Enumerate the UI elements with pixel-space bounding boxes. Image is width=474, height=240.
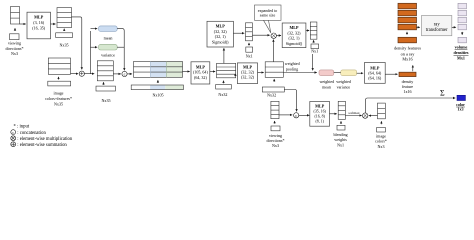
svg-text:mean: mean: [104, 36, 113, 41]
svg-text:densities: densities: [453, 50, 468, 55]
svg-text:Nx1: Nx1: [311, 49, 318, 54]
svg-text:image: image: [54, 91, 64, 96]
svg-text:Σ: Σ: [440, 88, 445, 97]
svg-text:variance: variance: [101, 53, 115, 58]
svg-text:colors+features*: colors+features*: [45, 96, 72, 101]
svg-text:: element-wise multiplication: : element-wise multiplication: [17, 137, 73, 142]
svg-text:density features: density features: [394, 46, 421, 51]
svg-text:Nx3: Nx3: [11, 51, 18, 56]
svg-text:variance: variance: [337, 84, 351, 89]
svg-text:volume: volume: [455, 44, 468, 49]
svg-text:weighted: weighted: [285, 61, 300, 66]
svg-text:colors*: colors*: [375, 139, 387, 144]
svg-text:Nx3: Nx3: [378, 144, 385, 149]
svg-text:pooling: pooling: [286, 67, 298, 72]
svg-text:Nx35: Nx35: [60, 43, 69, 48]
svg-text:weights: weights: [334, 137, 347, 142]
svg-text:Nx32: Nx32: [267, 93, 276, 98]
svg-text:ray: ray: [434, 22, 441, 27]
svg-text:MLP: MLP: [315, 104, 325, 109]
svg-text:* : input: * : input: [14, 125, 30, 130]
svg-text:1x16: 1x16: [403, 89, 411, 94]
svg-text:c: c: [295, 113, 297, 118]
svg-text:viewing: viewing: [8, 41, 21, 46]
svg-text:same size: same size: [260, 12, 276, 17]
svg-text:Nx35: Nx35: [54, 102, 63, 107]
svg-text:: element-wise summation: : element-wise summation: [17, 143, 67, 148]
svg-text:Sigmoid(): Sigmoid(): [212, 39, 229, 44]
svg-text:mean: mean: [322, 84, 331, 89]
svg-text:MLP: MLP: [196, 64, 206, 69]
svg-text:Nx32: Nx32: [218, 92, 227, 97]
svg-text:Nx1: Nx1: [246, 54, 253, 59]
svg-text:Mx1: Mx1: [457, 56, 465, 61]
svg-text:c: c: [12, 130, 14, 135]
svg-text:c: c: [124, 72, 126, 77]
svg-text:Sigmoid(): Sigmoid(): [286, 41, 303, 46]
svg-text:1x3: 1x3: [457, 107, 463, 112]
svg-text:on a ray: on a ray: [401, 51, 416, 56]
svg-text:MLP: MLP: [34, 15, 44, 20]
svg-text:Mx16: Mx16: [402, 57, 413, 62]
svg-text:: concatenation: : concatenation: [17, 131, 46, 136]
svg-text:transformer: transformer: [426, 28, 448, 33]
svg-text:Nx105: Nx105: [152, 93, 163, 98]
svg-text:Nx1: Nx1: [337, 142, 344, 147]
svg-text:Nx3: Nx3: [272, 143, 279, 148]
svg-text:MLP: MLP: [216, 24, 226, 29]
svg-text:softmax: softmax: [348, 111, 360, 115]
svg-text:Nx35: Nx35: [102, 98, 111, 103]
